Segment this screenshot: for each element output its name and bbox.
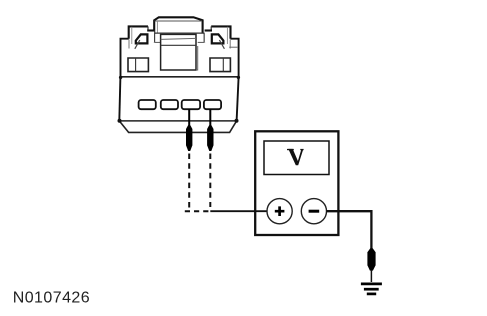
connector C1 left latch hook [136,34,148,43]
voltmeter V1 positive terminal [267,199,292,224]
test probe P2 [207,125,213,151]
connector C1 left latch diagonal [135,40,140,49]
connector C1 collar sides [154,33,204,42]
connector C1 right window [210,58,230,72]
dashed wire from probe P2 [209,154,211,208]
connector C1 right wing lower line [229,40,231,49]
probe lead pin 3 [188,109,190,125]
connector C1 upper body left edge [121,39,129,77]
connector C1 terminal slot 1 [139,100,156,109]
probe lead pin 4 [209,109,211,125]
voltmeter V1 negative terminal [301,199,326,224]
ground G1 [361,284,382,294]
connector C1 skirt top line [119,120,236,122]
dashed wire horizontal run [185,210,211,212]
test probe P3 [367,248,375,270]
connector C1 right latch wing [205,26,231,44]
test probe P1 [186,125,192,151]
ground lead [370,270,372,282]
connector C1 left latch wing [129,26,155,44]
connector C1 right step face line [229,46,237,48]
connector C1 latch tab [150,17,207,33]
connector C1 terminal slot 3 [182,100,200,109]
dashed wire from probe P1 [188,154,190,212]
connector C1 terminal slot 4 [204,100,221,109]
connector C1 bottom skirt [119,121,236,132]
voltmeter V1 display [264,141,329,175]
connector C1 left window [128,58,148,72]
connector C1 central cavity [161,34,198,70]
connector C1 lower body sides [119,77,120,121]
connector C1 upper body right edge [231,39,239,77]
voltmeter V1 display label V [287,149,304,165]
connector C1 right latch hook [212,34,224,43]
connector C1 body split line [120,76,239,78]
connector C1 right latch diagonal [219,40,224,49]
connector C1 left wing lower line [128,40,130,49]
voltmeter V1 case [255,131,338,235]
connector C1 corner joints [118,76,241,123]
connector C1 terminal slot 2 [161,100,178,109]
wire to voltmeter positive terminal [210,210,267,212]
svg-text:N0107426: N0107426 [13,289,90,306]
wire from negative terminal to ground [327,211,372,248]
